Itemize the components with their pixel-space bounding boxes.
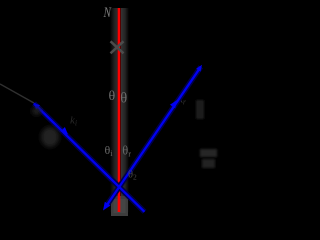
svg-text:θ: θ <box>120 91 127 107</box>
svg-text:θ: θ <box>109 89 116 104</box>
label right-edge lower smudge row 2 <box>202 159 215 168</box>
ray segment S1: faint grey segment at upper-left edge <box>0 84 34 103</box>
incident ray (blue, 45 deg, upper-left through vertex to lower-right) <box>34 104 145 212</box>
wire: glow under incident ray <box>34 104 145 212</box>
wire: faint halo band right of normal line <box>121 8 129 212</box>
wire: glow under reflected ray <box>108 67 201 204</box>
label right-edge upper smudge <box>196 100 204 119</box>
label smudge at incident tip <box>32 107 41 115</box>
label right-edge lower smudge row 1 <box>200 149 217 157</box>
arrowhead A3: reflected ray top tip <box>196 65 202 72</box>
arrowhead A4: reflected ray bottom-left end <box>103 202 111 211</box>
wire: faint halo band left of normal line <box>110 8 118 212</box>
label smudge below incident arrow <box>41 127 59 147</box>
label X mark on normal <box>111 41 124 53</box>
normal N (red vertical line) <box>118 8 121 212</box>
arrowhead A1: incident ray tip upper-left <box>34 103 41 110</box>
arrowhead A5: reflected ray mid arrow <box>170 100 177 108</box>
svg-text:N: N <box>103 5 112 21</box>
reflected ray (blue, upper-right through vertex to lower-left) <box>108 67 201 204</box>
arrowhead A2: incident ray mid arrow <box>60 127 68 135</box>
node O halo: faint grey patch at bottom end of normal line <box>111 196 128 216</box>
